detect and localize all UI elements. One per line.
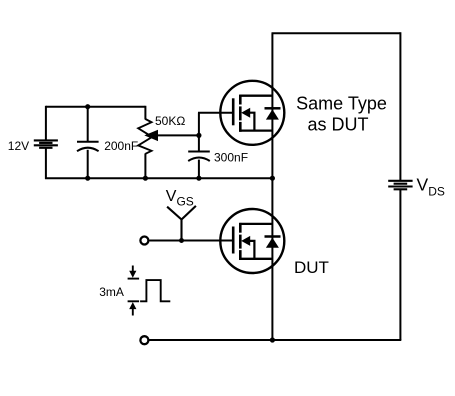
svg-text:as DUT: as DUT (307, 114, 368, 134)
wire: DUT gate lead (150, 240, 235, 242)
wire: 200nF top lead (87, 107, 89, 142)
wire: battery 12V bottom lead (45, 148, 47, 179)
terminal: lower open circle (140, 336, 148, 344)
current pulse marker: top arrow (128, 266, 140, 279)
svg-text:200nF: 200nF (104, 139, 138, 153)
probe VGS (167, 206, 196, 241)
mosfet Q1 same type as DUT (220, 81, 284, 145)
junction dot: potentiometer bottom (143, 176, 148, 181)
svg-text:12V: 12V (8, 139, 29, 153)
wire: 200nF bottom lead (87, 150, 89, 179)
potentiometer 50K zigzag (138, 119, 152, 154)
current pulse marker: bottom arrow (128, 301, 140, 315)
wire: upper gate lead (198, 112, 234, 114)
capacitor 200nF (77, 142, 99, 152)
wire: wiper to gate node (155, 134, 200, 136)
wire: 300nF top lead (198, 135, 200, 151)
mosfet Q2 DUT (220, 209, 284, 273)
wire: potentiometer top stub (144, 106, 146, 120)
potentiometer wiper arrow (144, 130, 158, 141)
battery 12V (34, 140, 58, 147)
junction dot: bottom rail at bus (270, 337, 275, 342)
svg-text:Same Type: Same Type (296, 94, 387, 114)
wire: potentiometer bottom stub (144, 153, 146, 179)
wire: right rail upper (399, 32, 401, 180)
wire: top rail (272, 32, 401, 34)
wire: main vertical bus (271, 33, 273, 340)
wire: riser wiper node to upper gate (198, 113, 200, 137)
wire: battery 12V top lead (45, 106, 47, 140)
svg-text:50KΩ: 50KΩ (155, 114, 185, 128)
svg-text:3mA: 3mA (99, 285, 124, 299)
junction dot: 200nF top (85, 104, 90, 109)
capacitor 300nF (188, 152, 210, 162)
wire: left section top rail (46, 106, 145, 108)
battery VDS (388, 181, 412, 190)
junction dot: 200nF bottom (85, 176, 90, 181)
svg-text:DUT: DUT (294, 258, 329, 277)
junction dot: source node between MOSFETs (270, 176, 275, 181)
wire: right rail lower (399, 190, 401, 340)
pulse waveform (140, 280, 170, 301)
terminal: upper open circle (140, 237, 148, 245)
wire: 300nF bottom lead (198, 160, 200, 179)
svg-text:300nF: 300nF (214, 151, 248, 165)
wire: bottom rail (149, 339, 401, 341)
junction dot: VGS probe node (179, 238, 184, 243)
junction dot: wiper node (196, 133, 201, 138)
wire: bottom rail of left section (45, 177, 273, 179)
junction dot: 300nF bottom (196, 176, 201, 181)
svg-text:VDS: VDS (417, 175, 445, 199)
svg-text:VGS: VGS (166, 188, 194, 209)
